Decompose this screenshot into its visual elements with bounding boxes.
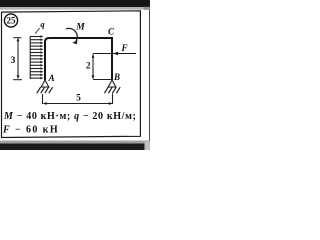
- svg-text:25: 25: [7, 16, 17, 26]
- svg-text:F: F: [120, 43, 127, 53]
- svg-text:5: 5: [76, 94, 81, 104]
- svg-text:M: M: [75, 23, 85, 33]
- svg-text:A: A: [48, 73, 55, 83]
- svg-text:B: B: [113, 72, 120, 82]
- svg-text:F − 60 кН: F − 60 кН: [2, 124, 59, 135]
- svg-text:3: 3: [11, 56, 16, 66]
- svg-text:M − 40 кН·м; q − 20 кН/м;: M − 40 кН·м; q − 20 кН/м;: [3, 111, 137, 122]
- svg-text:2: 2: [86, 62, 91, 72]
- svg-text:C: C: [108, 27, 115, 37]
